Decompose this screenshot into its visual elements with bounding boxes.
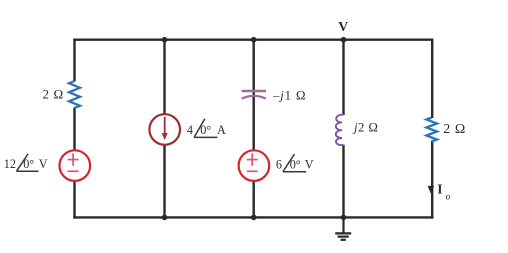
V2 plus sign <box>247 153 258 171</box>
inductor L1 coil <box>336 115 344 145</box>
svg-text:12: 12 <box>4 157 16 171</box>
label 12V angle notation <box>4 154 48 171</box>
resistor R2 2ohm right <box>426 118 437 142</box>
svg-text:6: 6 <box>276 157 282 171</box>
wire branch2 <box>163 39 165 219</box>
svg-text:j2 Ω: j2 Ω <box>352 120 378 134</box>
svg-text:A: A <box>217 123 226 137</box>
svg-text:V: V <box>39 157 48 171</box>
wire branch5 right lower <box>431 141 433 219</box>
svg-text:V: V <box>305 157 314 171</box>
svg-text:–j1 Ω: –j1 Ω <box>272 88 306 102</box>
node dot top b4 V <box>341 37 347 43</box>
capacitor C1 bottom plate arc <box>242 96 266 99</box>
node dot bottom b3 <box>251 215 257 221</box>
label 4A angle notation <box>187 119 226 138</box>
label 6V angle notation <box>276 154 314 172</box>
svg-text:Ω: Ω <box>455 122 465 137</box>
wire top rail <box>73 39 433 41</box>
svg-text:V: V <box>338 19 348 34</box>
svg-text:2: 2 <box>443 122 450 137</box>
capacitor C1 top plate <box>242 90 266 93</box>
svg-text:0°: 0° <box>200 123 211 137</box>
wire bottom rail <box>73 216 433 218</box>
ground <box>335 217 351 239</box>
resistor R1 2ohm left <box>69 81 80 108</box>
voltage source V1 12V circle <box>60 150 91 181</box>
wire branch1 left upper <box>73 39 75 82</box>
svg-text:0°: 0° <box>23 157 34 171</box>
svg-text:I: I <box>437 181 442 196</box>
svg-text:o: o <box>446 192 451 202</box>
V1 plus sign <box>68 153 79 171</box>
wire branch1 left lower <box>73 108 75 219</box>
arrow Io <box>428 186 435 194</box>
svg-text:4: 4 <box>187 123 193 137</box>
node dot top b2 <box>162 37 168 43</box>
node dot bottom b2 <box>162 215 168 221</box>
wire branch4 lower <box>342 145 344 219</box>
wire branch5 right upper <box>431 39 433 119</box>
current source I1 4A circle <box>149 114 180 145</box>
node dot bottom b4 <box>341 215 347 221</box>
I1 arrow down <box>164 117 166 134</box>
svg-text:2 Ω: 2 Ω <box>43 87 64 102</box>
wire branch3 <box>252 39 254 219</box>
wire branch4 upper <box>342 39 344 116</box>
voltage source V2 6V circle <box>239 150 270 181</box>
node dot top b3 <box>251 37 257 43</box>
svg-text:0°: 0° <box>290 157 301 171</box>
